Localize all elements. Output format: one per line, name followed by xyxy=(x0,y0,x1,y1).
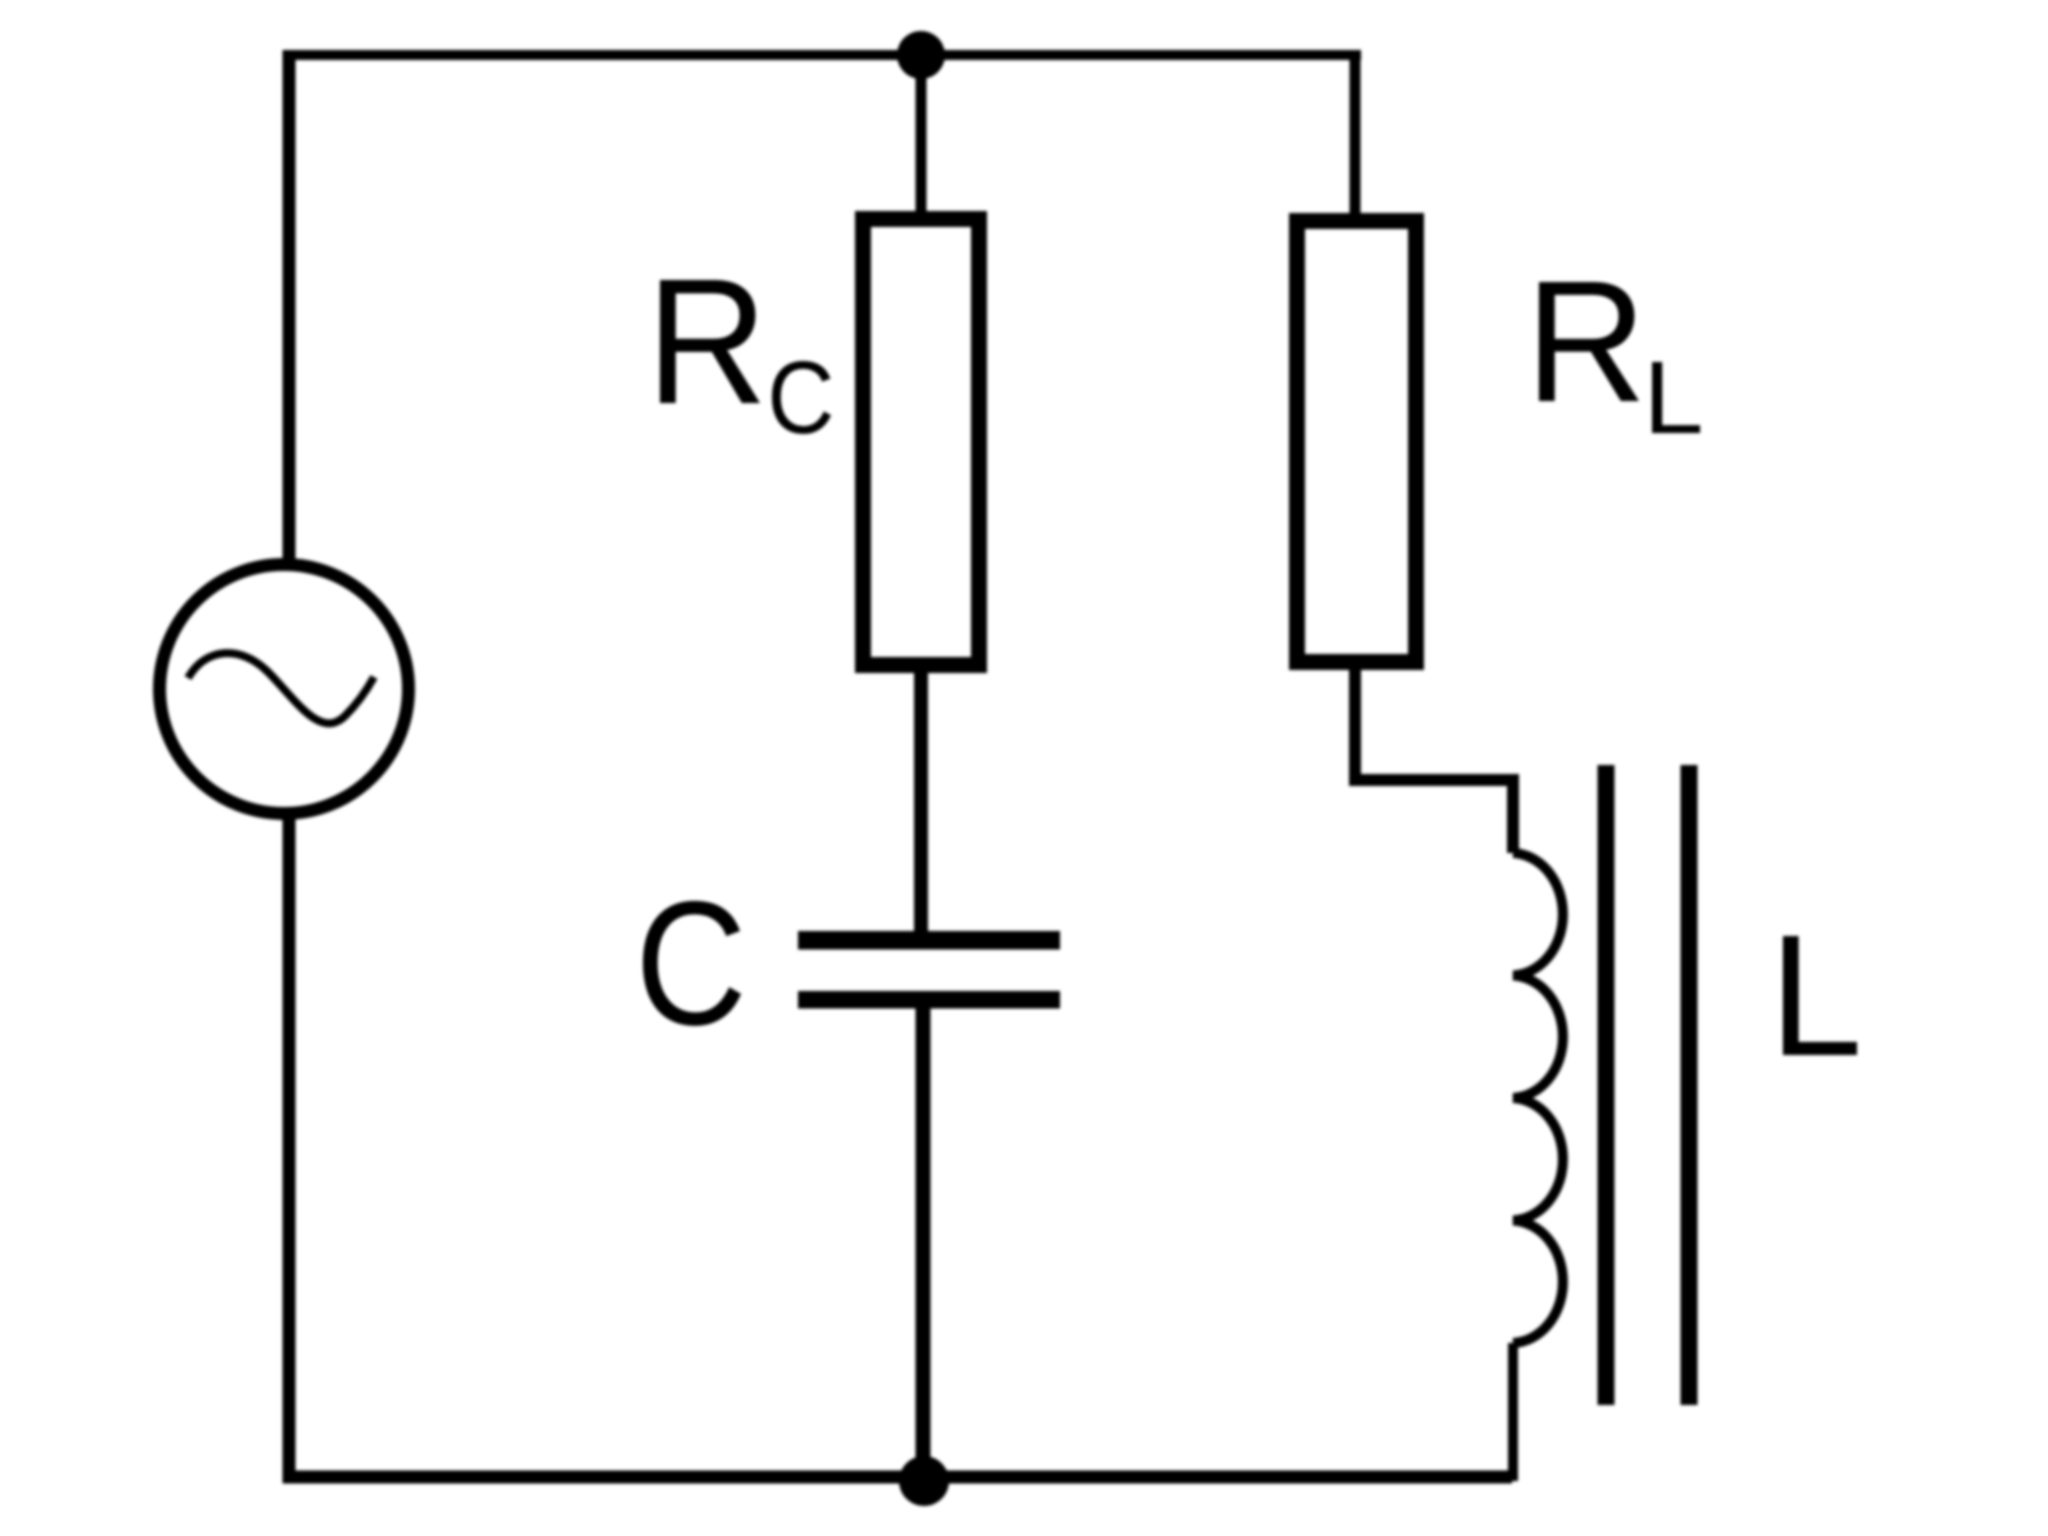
AC source V1 xyxy=(160,565,409,814)
svg-text:R: R xyxy=(1525,245,1647,439)
wire left vertical lower xyxy=(283,814,296,1483)
node bottom junction xyxy=(899,1456,949,1506)
wire middle upper xyxy=(916,50,927,219)
svg-text:C: C xyxy=(767,340,834,455)
inductor core bar 2 xyxy=(1681,765,1698,1405)
wire coil lower lead xyxy=(1508,1343,1518,1481)
resistor RL xyxy=(1297,221,1416,662)
label RC xyxy=(646,241,834,455)
svg-text:L: L xyxy=(1643,341,1704,456)
resistor RC xyxy=(863,219,979,665)
wire left vertical upper xyxy=(283,50,296,564)
label RL xyxy=(1525,245,1703,455)
inductor core bar 1 xyxy=(1598,765,1615,1405)
svg-text:L: L xyxy=(1769,900,1862,1093)
wire middle lower xyxy=(916,1000,931,1483)
capacitor C plates xyxy=(798,931,1060,950)
wire right vertical upper xyxy=(1350,50,1361,221)
wire top rail xyxy=(283,50,1361,60)
label L xyxy=(1769,900,1862,1093)
wire bottom rail xyxy=(283,1471,1512,1484)
wire middle mid xyxy=(914,665,928,949)
svg-text:R: R xyxy=(646,241,768,441)
wire right jog xyxy=(1355,662,1513,853)
label C xyxy=(635,866,747,1063)
inductor L coil xyxy=(1513,853,1563,1343)
svg-text:C: C xyxy=(635,866,747,1063)
node top junction xyxy=(897,31,945,79)
